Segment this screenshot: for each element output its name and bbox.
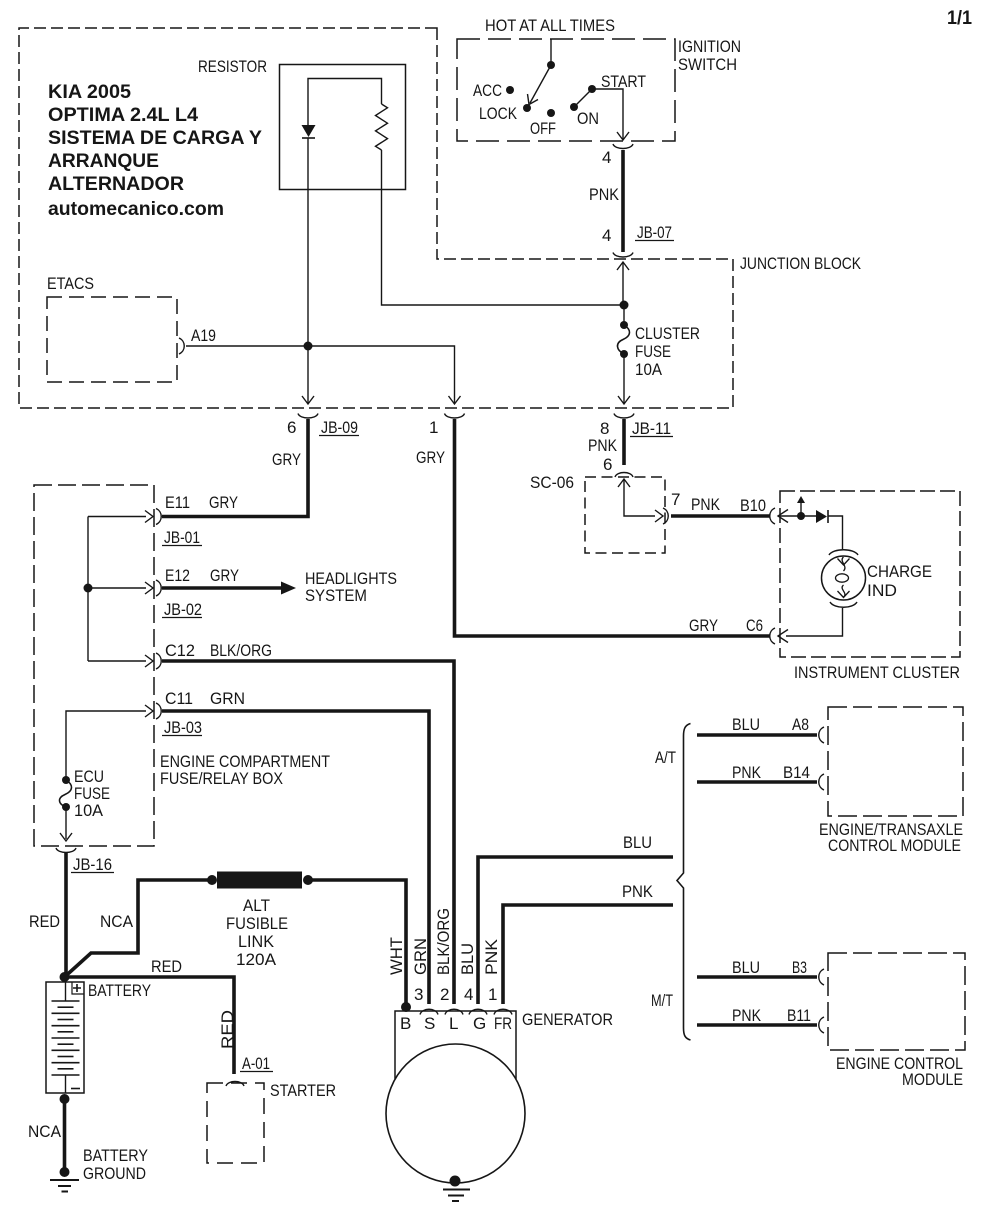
connector E12 JB-02 xyxy=(156,580,161,596)
wire BLU A/T to A8 xyxy=(697,733,817,737)
wire B10 to lamp xyxy=(780,515,816,517)
svg-text:PNK: PNK xyxy=(691,495,721,514)
OFF contact xyxy=(547,109,555,117)
svg-text:KIA 2005: KIA 2005 xyxy=(48,81,131,103)
SC-06 internal wire xyxy=(618,479,630,487)
svg-text:GRY: GRY xyxy=(210,566,239,585)
connector C6 xyxy=(770,628,775,644)
wire diode down to node A19 xyxy=(307,138,309,346)
svg-text:B: B xyxy=(400,1014,411,1033)
svg-text:FUSE/RELAY BOX: FUSE/RELAY BOX xyxy=(160,769,283,788)
wire to JB-09 xyxy=(307,346,309,403)
svg-text:C12: C12 xyxy=(165,641,195,660)
connector E11 JB-01 xyxy=(156,509,161,525)
generator body xyxy=(386,1044,525,1183)
svg-text:BATTERY: BATTERY xyxy=(83,1146,148,1165)
svg-text:FUSIBLE: FUSIBLE xyxy=(226,914,288,933)
ACC contact xyxy=(506,86,514,94)
svg-text:JUNCTION BLOCK: JUNCTION BLOCK xyxy=(740,254,862,273)
svg-text:PNK: PNK xyxy=(732,763,762,782)
svg-text:LINK: LINK xyxy=(238,932,275,951)
svg-text:SWITCH: SWITCH xyxy=(678,55,737,74)
svg-text:JB-03: JB-03 xyxy=(164,718,202,737)
svg-text:10A: 10A xyxy=(74,801,104,820)
svg-text:G: G xyxy=(473,1014,486,1033)
svg-text:SISTEMA DE CARGA Y: SISTEMA DE CARGA Y xyxy=(48,127,262,149)
wire inside junction block from JB-07 xyxy=(617,262,629,270)
ignition switch output connector pin 4 xyxy=(613,144,633,149)
svg-text:RED: RED xyxy=(151,957,182,976)
svg-text:CHARGE: CHARGE xyxy=(867,562,932,581)
charge indicator lamp xyxy=(822,556,866,600)
svg-text:GRY: GRY xyxy=(272,450,301,469)
wire PNK A/T to B14 xyxy=(697,780,817,784)
svg-text:ALT: ALT xyxy=(243,896,270,915)
svg-text:ON: ON xyxy=(577,109,599,128)
svg-text:BLK/ORG: BLK/ORG xyxy=(210,641,272,660)
svg-text:JB-16: JB-16 xyxy=(73,855,112,874)
SC-06 dashed box xyxy=(585,477,665,553)
resistor R1 zigzag xyxy=(376,104,388,150)
engine control module dashed box xyxy=(828,953,965,1050)
svg-text:B10: B10 xyxy=(740,496,766,515)
svg-text:GRY: GRY xyxy=(416,448,445,467)
svg-text:FR: FR xyxy=(494,1014,512,1033)
svg-text:A-01: A-01 xyxy=(242,1054,270,1073)
wire START to ignition connector xyxy=(592,89,623,139)
svg-text:GRN: GRN xyxy=(411,938,430,975)
ECU fuse 10A xyxy=(62,776,70,784)
diode D1 xyxy=(302,125,316,137)
connector JB-11 pin 8 xyxy=(614,414,634,419)
svg-text:A19: A19 xyxy=(191,326,216,345)
svg-text:4: 4 xyxy=(464,985,473,1004)
wire GRY E12 to headlights xyxy=(162,586,281,590)
svg-text:FUSE: FUSE xyxy=(635,342,671,361)
svg-text:E12: E12 xyxy=(165,566,190,585)
diode in cluster xyxy=(816,510,827,523)
cluster fuse 10A xyxy=(623,305,625,325)
svg-text:LOCK: LOCK xyxy=(479,104,518,123)
svg-text:3: 3 xyxy=(414,985,423,1004)
svg-text:L: L xyxy=(449,1014,458,1033)
svg-text:A8: A8 xyxy=(792,715,809,734)
wire PNK JB-11 to SC-06 xyxy=(622,419,626,465)
svg-text:NCA: NCA xyxy=(100,912,134,931)
connector A8 xyxy=(819,727,824,743)
svg-text:BATTERY: BATTERY xyxy=(88,981,151,1000)
starter dashed box xyxy=(207,1083,264,1163)
svg-text:PNK: PNK xyxy=(482,938,501,975)
ignition switch dashed box xyxy=(457,39,675,141)
connector C11 JB-03 xyxy=(156,703,161,719)
connector A-01 xyxy=(226,1082,244,1087)
wire lamp to C6 xyxy=(786,608,843,636)
svg-text:OPTIMA 2.4L L4: OPTIMA 2.4L L4 xyxy=(48,104,198,126)
wire WHT fusible link to generator B xyxy=(308,880,406,1007)
svg-text:GRY: GRY xyxy=(209,493,238,512)
wire BLU generator G to brace xyxy=(478,857,673,1004)
junction block dashed outline xyxy=(19,28,733,408)
START contact xyxy=(588,85,596,93)
svg-text:SC-06: SC-06 xyxy=(530,473,574,492)
svg-text:PNK: PNK xyxy=(622,882,654,901)
connector 6 JB-09 xyxy=(298,414,318,419)
svg-text:IND: IND xyxy=(867,581,897,600)
wire RED JB-16 to battery xyxy=(64,853,68,977)
stub to C12 xyxy=(88,660,146,662)
connector B11 xyxy=(819,1017,824,1033)
svg-text:10A: 10A xyxy=(635,360,663,379)
svg-text:OFF: OFF xyxy=(530,119,556,138)
svg-text:START: START xyxy=(601,72,646,91)
wire BLU M/T to B3 xyxy=(697,975,817,979)
svg-text:B14: B14 xyxy=(783,763,810,782)
engine compartment fuse/relay box dashed xyxy=(34,485,154,846)
wire PNK M/T to B11 xyxy=(697,1023,817,1027)
ALT fusible link 120A xyxy=(207,875,217,885)
wire NCA battery to ground xyxy=(63,1099,67,1172)
svg-text:NCA: NCA xyxy=(28,1122,62,1141)
svg-text:HOT AT ALL TIMES: HOT AT ALL TIMES xyxy=(485,16,615,35)
generator terminal box xyxy=(395,1011,516,1079)
resistor box xyxy=(280,65,406,190)
stub to E12 xyxy=(88,587,146,589)
svg-text:BLU: BLU xyxy=(732,715,760,734)
svg-text:JB-07: JB-07 xyxy=(637,223,672,242)
svg-text:C6: C6 xyxy=(746,616,763,635)
svg-text:6: 6 xyxy=(603,455,612,474)
svg-text:CLUSTER: CLUSTER xyxy=(635,324,700,343)
wire RED battery to starter A-01 xyxy=(65,977,235,1074)
wire diode to lamp xyxy=(828,516,843,549)
ETACS connector A19 xyxy=(179,338,184,354)
stub to E11 xyxy=(88,516,146,518)
stub to C11 from ECU fuse xyxy=(66,711,146,780)
wire BLK/ORG C12 to generator L xyxy=(162,661,454,1004)
top bar xyxy=(308,79,382,126)
svg-text:WHT: WHT xyxy=(387,937,406,975)
wire NCA battery to fusible link xyxy=(65,880,213,977)
wire A19 to connector 1 xyxy=(186,346,455,403)
svg-text:1/1: 1/1 xyxy=(947,7,972,29)
svg-text:RESISTOR: RESISTOR xyxy=(198,57,267,76)
svg-text:JB-01: JB-01 xyxy=(164,528,200,547)
svg-text:C11: C11 xyxy=(165,689,193,708)
svg-text:BLU: BLU xyxy=(458,943,477,975)
svg-text:GROUND: GROUND xyxy=(83,1164,146,1183)
pin caps S L G FR xyxy=(420,1009,438,1014)
svg-text:120A: 120A xyxy=(236,950,277,969)
svg-text:INSTRUMENT CLUSTER: INSTRUMENT CLUSTER xyxy=(794,663,960,682)
junction node diode/A19 wire xyxy=(304,342,313,351)
wire GRY JB-09 to E11 xyxy=(162,419,308,517)
LOCK contact xyxy=(523,104,531,112)
connector C12 xyxy=(156,653,161,669)
svg-text:A/T: A/T xyxy=(655,748,676,767)
svg-text:JB-02: JB-02 xyxy=(164,600,202,619)
svg-text:IGNITION: IGNITION xyxy=(678,37,741,56)
svg-text:PNK: PNK xyxy=(588,436,618,455)
connector into SC-06 xyxy=(615,473,633,478)
svg-text:ALTERNADOR: ALTERNADOR xyxy=(48,173,184,195)
svg-text:B11: B11 xyxy=(787,1006,811,1025)
wire PNK ignition to JB-07 xyxy=(621,150,625,252)
svg-text:CONTROL MODULE: CONTROL MODULE xyxy=(828,836,961,855)
svg-text:RED: RED xyxy=(29,912,60,931)
pivot node xyxy=(547,61,555,69)
svg-text:ACC: ACC xyxy=(473,81,502,100)
instrument cluster dashed box xyxy=(780,491,960,657)
connector B14 xyxy=(819,774,824,790)
connector B3 xyxy=(819,969,824,985)
svg-text:GENERATOR: GENERATOR xyxy=(522,1010,613,1029)
svg-text:4: 4 xyxy=(602,226,611,245)
svg-text:GRY: GRY xyxy=(689,616,718,635)
generator ground xyxy=(450,1176,461,1187)
lamp top connector xyxy=(829,550,858,555)
fuse box internal bus xyxy=(87,517,89,662)
arrow up node xyxy=(800,503,802,516)
connector JB-16 xyxy=(56,848,76,853)
svg-text:4: 4 xyxy=(602,148,611,167)
battery positive node xyxy=(60,972,70,982)
svg-text:7: 7 xyxy=(671,490,680,509)
svg-text:automecanico.com: automecanico.com xyxy=(48,198,224,220)
svg-text:2: 2 xyxy=(440,985,449,1004)
svg-text:BLK/ORG: BLK/ORG xyxy=(434,908,453,975)
svg-text:1: 1 xyxy=(429,418,438,437)
ON contact xyxy=(570,103,578,111)
svg-text:6: 6 xyxy=(287,418,296,437)
svg-text:B3: B3 xyxy=(792,958,807,977)
wire GRN C11 to generator S xyxy=(162,711,429,1004)
wiper wire to LOCK xyxy=(530,65,551,103)
wire ON to START xyxy=(574,89,592,107)
svg-text:M/T: M/T xyxy=(651,991,673,1010)
svg-text:1: 1 xyxy=(488,985,497,1004)
brace A/T-M/T xyxy=(677,724,691,1041)
lamp bottom connector xyxy=(830,602,857,607)
svg-text:ARRANQUE: ARRANQUE xyxy=(48,150,159,172)
svg-text:BLU: BLU xyxy=(623,833,652,852)
ETACS dashed box xyxy=(47,297,177,382)
svg-text:JB-09: JB-09 xyxy=(321,418,358,437)
svg-text:STARTER: STARTER xyxy=(270,1081,336,1100)
svg-text:GRN: GRN xyxy=(210,689,245,708)
connector 1 JB (GRY) xyxy=(445,414,465,419)
svg-text:MODULE: MODULE xyxy=(902,1070,963,1089)
battery negative node xyxy=(60,1094,70,1104)
wire GRY connector 1 to C6 xyxy=(455,419,771,636)
svg-text:JB-11: JB-11 xyxy=(632,419,671,438)
wire resistor down and right to cluster fuse node xyxy=(382,150,625,305)
svg-text:S: S xyxy=(424,1014,435,1033)
battery ground xyxy=(60,1167,70,1177)
svg-text:PNK: PNK xyxy=(589,185,620,204)
node at generator B xyxy=(401,1002,411,1012)
cluster fuse node xyxy=(620,301,629,310)
svg-text:SYSTEM: SYSTEM xyxy=(305,586,367,605)
svg-text:PNK: PNK xyxy=(732,1006,762,1025)
battery xyxy=(46,982,84,1093)
feed wire xyxy=(550,39,552,65)
svg-text:ETACS: ETACS xyxy=(47,274,94,293)
wire PNK SC-06 to B10 xyxy=(671,514,770,518)
engine/transaxle control module dashed box xyxy=(828,707,963,816)
svg-text:E11: E11 xyxy=(165,493,190,512)
SC-06 pin 7 connector xyxy=(663,508,668,524)
svg-text:RED: RED xyxy=(218,1010,237,1049)
svg-text:BLU: BLU xyxy=(732,958,760,977)
wire PNK generator FR to brace xyxy=(503,905,673,1004)
